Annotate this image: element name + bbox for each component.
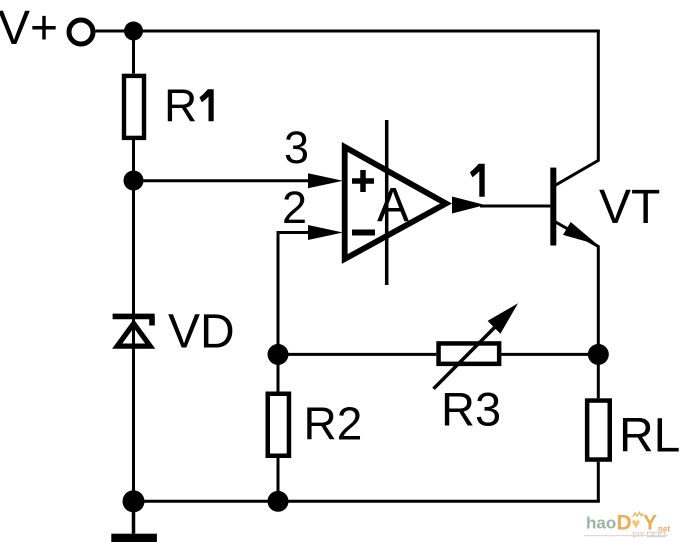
op-amp power line bbox=[385, 120, 389, 285]
resistor R2 bbox=[268, 394, 289, 456]
svg-text:RL: RL bbox=[619, 410, 680, 463]
op-amp plus input mark bbox=[352, 170, 374, 192]
op-amp minus input mark bbox=[352, 230, 375, 236]
pin 3 arrow bbox=[308, 173, 343, 188]
wire bottom rail bbox=[134, 500, 600, 503]
node bottom R2 junction bbox=[268, 491, 289, 512]
wire top rail bbox=[96, 30, 600, 33]
node feedback left junction bbox=[268, 344, 289, 365]
op-amp A triangle bbox=[345, 147, 446, 259]
wire node to pin 3 bbox=[134, 179, 313, 182]
wire VD to ground node bbox=[132, 349, 135, 502]
wire VD branch bbox=[132, 181, 135, 502]
wire collector bbox=[555, 31, 598, 185]
pin 2 arrow bbox=[308, 225, 343, 240]
wire node to R2 top bbox=[277, 354, 280, 391]
wire to ground bbox=[132, 501, 136, 533]
svg-text:D: D bbox=[617, 511, 632, 534]
wire V+ node to R1 bbox=[132, 31, 135, 74]
wire pin 2 bbox=[278, 233, 312, 355]
wire R1 to node bbox=[132, 140, 135, 181]
svg-text:A: A bbox=[377, 179, 409, 232]
potentiometer R3 arrow line bbox=[434, 317, 506, 389]
potentiometer R3 arrowhead bbox=[488, 303, 518, 333]
node R1/VD/pin3 junction bbox=[124, 171, 144, 191]
svg-text:hao: hao bbox=[586, 514, 616, 533]
label pin 1 bbox=[470, 164, 485, 197]
svg-text:2: 2 bbox=[282, 182, 307, 233]
diode VD zener cathode bar bbox=[113, 316, 155, 325]
svg-text:R2: R2 bbox=[304, 398, 363, 450]
svg-text:V+: V+ bbox=[0, 2, 58, 55]
svg-text:VT: VT bbox=[599, 181, 660, 234]
terminal circle V+ bbox=[69, 20, 93, 44]
svg-text:3: 3 bbox=[284, 122, 309, 173]
resistor R1 bbox=[124, 76, 144, 138]
wire R2 to bottom rail bbox=[277, 458, 280, 501]
wire node to R3 bbox=[278, 353, 436, 356]
svg-text:Y: Y bbox=[643, 511, 657, 534]
ground bbox=[111, 534, 157, 542]
resistor RL bbox=[587, 401, 610, 460]
svg-text:R3: R3 bbox=[441, 383, 501, 436]
svg-text:DIY: DIY bbox=[633, 530, 645, 539]
logo haoDIY bbox=[584, 511, 670, 539]
svg-text:R: R bbox=[164, 80, 197, 132]
node ground junction bbox=[123, 490, 145, 512]
transistor VT base bar bbox=[550, 168, 556, 246]
wire output to base bbox=[480, 205, 550, 208]
svg-text:VD: VD bbox=[168, 306, 235, 359]
transistor VT emitter arrow bbox=[563, 222, 598, 245]
wire R3 to emitter node bbox=[501, 353, 598, 356]
node emitter/RL junction bbox=[588, 344, 609, 365]
wire RL top bbox=[597, 354, 600, 398]
diode VD triangle bbox=[117, 324, 150, 347]
op-amp output arrow bbox=[452, 197, 485, 214]
wire RL bottom bbox=[597, 462, 600, 502]
potentiometer R3 body bbox=[439, 343, 500, 363]
node top junction bbox=[124, 22, 143, 41]
transistor VT emitter bbox=[555, 222, 598, 355]
